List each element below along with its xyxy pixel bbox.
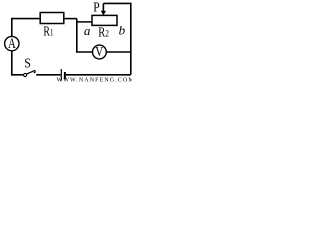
wire: left vertical from ammeter up, corner, top wire to R1 <box>12 19 40 37</box>
wiper arrow shaft <box>102 3 104 11</box>
svg-text:S: S <box>24 56 31 71</box>
wiper arrowhead <box>101 11 106 16</box>
svg-text:A: A <box>8 36 16 52</box>
ammeter A (circle) <box>5 36 19 50</box>
background <box>0 0 132 83</box>
switch S blade <box>27 71 36 74</box>
svg-text:a: a <box>84 23 91 38</box>
wire: vertical branch x=76.8 down to voltmeter wire <box>77 19 93 52</box>
voltmeter V (circle) <box>93 45 107 59</box>
wire: node to rheostat terminal a <box>77 21 92 23</box>
wire: R1 right lead to node x=76.8 <box>64 18 77 20</box>
wire: top-right from wiper to right edge and down <box>103 3 130 74</box>
wire: battery to bottom-right corner <box>66 74 131 76</box>
battery long plate (+) <box>60 69 62 81</box>
wire: voltmeter right lead to right edge <box>106 51 131 53</box>
svg-text:b: b <box>119 22 126 37</box>
wire: switch right contact to battery <box>36 74 61 76</box>
svg-text:P: P <box>93 0 100 15</box>
battery short plate (-) <box>64 72 66 79</box>
switch S pivot contact <box>24 73 27 76</box>
svg-text:WWW.NANFENG.COM: WWW.NANFENG.COM <box>57 78 133 83</box>
svg-text:V: V <box>95 44 103 59</box>
wire: ammeter bottom down to bottom-left corner <box>12 51 24 75</box>
resistor R1 (box) <box>40 13 64 24</box>
rheostat R2 (box) <box>92 15 117 25</box>
